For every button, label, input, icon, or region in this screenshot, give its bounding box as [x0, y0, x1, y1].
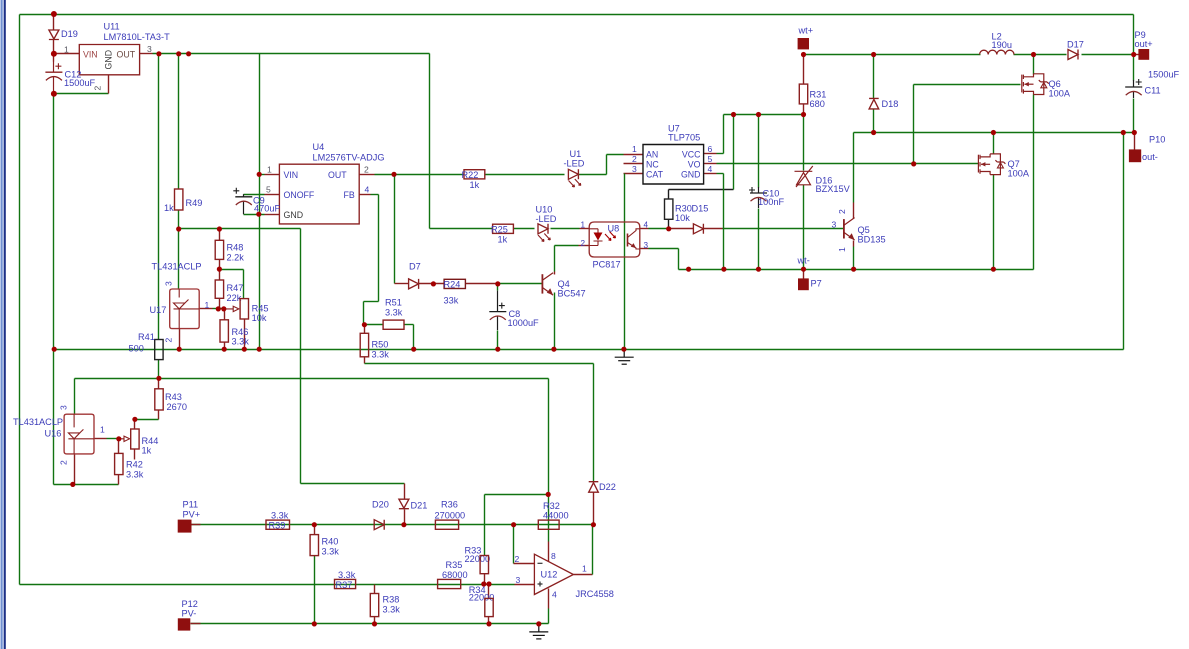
svg-text:22000: 22000: [469, 593, 495, 603]
svg-text:VIN: VIN: [83, 50, 98, 60]
svg-text:P12: P12: [182, 599, 198, 609]
wire r30 link v: [733, 115, 735, 190]
node u16 pin2: [70, 482, 75, 487]
wire pv- rail: [191, 623, 549, 625]
wire r43 bot lead: [158, 411, 160, 420]
wire r48net col down: [300, 229, 302, 484]
svg-text:1500uF: 1500uF: [64, 78, 96, 88]
svg-text:10k: 10k: [252, 313, 267, 323]
wire p9 stub: [1134, 54, 1139, 56]
wire u17 pin2: [179, 329, 181, 350]
resistor R41: [155, 340, 163, 360]
wire u8 pin1 stub: [580, 228, 590, 230]
node pv+ r32r: [591, 522, 596, 527]
svg-text:GND: GND: [681, 169, 701, 179]
wire d7 lead: [395, 283, 409, 285]
node outm d18: [871, 130, 876, 135]
svg-text:5: 5: [266, 185, 271, 195]
wire r42 top lead: [118, 439, 120, 454]
wire 10V rail: [153, 53, 430, 55]
mosfet Q7: [978, 154, 1005, 175]
wire vcc h: [717, 153, 724, 155]
wire d18 top lead: [873, 55, 875, 99]
opamp plus: [538, 582, 543, 587]
wire fb d: [363, 302, 365, 325]
wire d21 row: [301, 483, 405, 485]
wire r38 top lead: [374, 585, 376, 594]
pad P12: [178, 618, 191, 630]
svg-text:R24: R24: [444, 280, 461, 290]
resistor R22: [464, 170, 485, 179]
wire d21 top lead: [404, 484, 406, 499]
svg-text:ONOFF: ONOFF: [284, 190, 315, 200]
node r41 wireB: [156, 376, 161, 381]
node wt+ d18: [871, 52, 876, 57]
wire q7 drain: [993, 133, 995, 155]
svg-text:R37: R37: [336, 580, 353, 590]
wire out-/P10 line: [854, 132, 1135, 134]
svg-text:1k: 1k: [142, 446, 152, 456]
diode D22: [589, 482, 599, 493]
wire r49 col bottom: [178, 211, 180, 229]
svg-text:R31: R31: [810, 90, 827, 100]
node vccrail r31: [801, 112, 806, 117]
wire r47 lead top: [219, 270, 221, 281]
svg-text:3.3k: 3.3k: [322, 547, 340, 557]
diode D15: [693, 224, 703, 234]
svg-text:2670: 2670: [167, 402, 187, 412]
svg-text:D19: D19: [61, 29, 78, 39]
svg-text:BD135: BD135: [858, 235, 886, 245]
svg-text:1k: 1k: [470, 180, 480, 190]
svg-text:Q5: Q5: [858, 225, 870, 235]
svg-text:33k: 33k: [444, 296, 459, 306]
wire c11 col b: [1133, 99, 1135, 133]
svg-text:Q7: Q7: [1008, 159, 1020, 169]
svg-text:1: 1: [582, 564, 587, 574]
resistor R35: [438, 579, 461, 588]
ground opamp: [529, 624, 548, 639]
resistor R47: [215, 280, 223, 298]
wire pv+ line: [192, 524, 594, 526]
wire r48-r45 link h: [220, 269, 244, 271]
node wt- q7s: [991, 267, 996, 272]
svg-text:3: 3: [632, 164, 637, 174]
svg-text:out-: out-: [1142, 152, 1158, 162]
wire r30 bot lead: [668, 220, 670, 229]
svg-text:1: 1: [632, 144, 637, 154]
wire r46 lead top: [224, 309, 226, 320]
wire c8 bot lead: [497, 331, 499, 350]
svg-text:10k: 10k: [675, 213, 690, 223]
U8 light arrows: [605, 232, 616, 241]
svg-text:-LED: -LED: [564, 159, 585, 169]
wire B h: [75, 378, 549, 380]
wire r24-q4: [466, 283, 498, 285]
svg-text:CAT: CAT: [646, 169, 664, 179]
node out3 c: [186, 51, 191, 56]
svg-text:PC817: PC817: [593, 260, 621, 270]
svg-text:1k: 1k: [164, 203, 174, 213]
wire d21 bot lead: [404, 510, 406, 525]
svg-text:270000: 270000: [435, 511, 466, 521]
zener D16: [795, 166, 813, 187]
wire gnd rail: [55, 349, 1124, 351]
svg-text:R25: R25: [491, 225, 508, 235]
resistor R31: [799, 84, 807, 104]
svg-text:wt+: wt+: [798, 26, 814, 36]
node rail u17pin2: [177, 347, 182, 352]
wire u4 vin stub g: [260, 174, 265, 176]
node vccrail r30: [731, 112, 736, 117]
wire c11 col a: [1133, 15, 1135, 81]
node r30 u8pin4: [666, 226, 671, 231]
U8 photo transistor: [627, 234, 629, 247]
svg-text:3: 3: [832, 220, 837, 230]
svg-text:TL431ACLP: TL431ACLP: [152, 262, 202, 272]
wire gnd4 stub: [704, 173, 717, 175]
svg-text:D18: D18: [882, 99, 899, 109]
wire q6 source: [1033, 95, 1035, 270]
wire r44 bot stub: [134, 449, 136, 460]
node wt+ pad: [801, 52, 806, 57]
svg-text:5: 5: [708, 154, 713, 164]
node rail q4e: [551, 347, 556, 352]
svg-text:3.3k: 3.3k: [271, 511, 289, 521]
node pv+ r32l: [511, 522, 516, 527]
node wt- c10: [756, 267, 761, 272]
wire r31 bot lead: [803, 104, 805, 115]
wire vcc stub: [704, 153, 717, 155]
node u4 vin: [257, 172, 262, 177]
wire r40 bot lead: [314, 556, 316, 624]
svg-text:TL431ACLP: TL431ACLP: [13, 417, 63, 427]
wire d16 col: [803, 115, 805, 171]
wire opamp pin4 stub: [548, 589, 550, 609]
wire d17 to out+: [1082, 54, 1134, 56]
svg-text:2: 2: [632, 154, 637, 164]
wire r48 lead bot: [219, 260, 221, 270]
svg-text:R22: R22: [462, 170, 479, 180]
ic U11 box: [79, 45, 139, 75]
svg-text:44000: 44000: [543, 511, 569, 521]
svg-text:1: 1: [581, 221, 586, 230]
wire vin stub u11: [54, 53, 80, 55]
wire u1 to an: [607, 154, 624, 156]
wire pin2 h: [555, 245, 579, 247]
wire r34 bot lead: [488, 617, 490, 624]
svg-text:3: 3: [516, 575, 521, 585]
svg-text:wt-: wt-: [797, 256, 810, 266]
svg-text:2: 2: [837, 209, 847, 214]
ground main: [615, 349, 634, 364]
inductor L2: [980, 50, 1014, 54]
wire u8 pin2 stub: [579, 245, 590, 247]
node pv- r34: [486, 621, 491, 626]
wire r48 net h: [179, 228, 301, 230]
svg-text:GND: GND: [284, 210, 304, 220]
wire r30 link h: [669, 189, 734, 191]
svg-text:68000: 68000: [442, 570, 468, 580]
wire opamp v+ lead: [548, 495, 550, 542]
wire pin4 h: [649, 228, 669, 230]
svg-text:R38: R38: [383, 595, 400, 605]
resistor R30: [665, 199, 673, 219]
svg-text:VO: VO: [688, 159, 701, 169]
wire wt+ line: [804, 54, 981, 56]
wire u8 pin3 stub: [640, 248, 649, 250]
wire q5 collector pin: [853, 203, 855, 219]
frame left bar: [0, 0, 4, 649]
svg-text:-LED: -LED: [536, 214, 557, 224]
resistor R24: [444, 279, 465, 288]
node rail r46: [222, 347, 227, 352]
transistor Q5: [844, 218, 855, 240]
svg-text:2: 2: [515, 554, 520, 564]
svg-text:1k: 1k: [498, 235, 508, 245]
led U1: [568, 169, 578, 179]
wire q5 emitter pin: [853, 241, 855, 247]
resistor R34: [485, 598, 493, 616]
node vo branch: [911, 161, 916, 166]
svg-text:U4: U4: [313, 142, 325, 152]
svg-text:D22: D22: [599, 482, 616, 492]
node out3 a: [156, 51, 161, 56]
wire q4 emitter lead: [554, 293, 556, 350]
node wt- q5e: [851, 267, 856, 272]
wire out net h: [375, 174, 465, 176]
ic U8 box: [589, 222, 640, 257]
svg-text:R36: R36: [441, 500, 458, 510]
wire r45 bot lead: [244, 319, 246, 350]
node d7 r24: [431, 281, 436, 286]
wire pin3 stub: [515, 584, 535, 586]
svg-text:TLP705: TLP705: [668, 133, 700, 143]
wire r31 top lead: [803, 55, 805, 85]
led U10: [538, 224, 548, 234]
capacitor C11: [1125, 79, 1142, 98]
svg-text:3.3k: 3.3k: [338, 570, 356, 580]
wire fb a: [371, 194, 379, 196]
svg-text:1: 1: [267, 165, 272, 175]
svg-text:U8: U8: [608, 224, 620, 234]
wire vcc v: [723, 115, 725, 154]
resistor R46: [220, 320, 228, 342]
node r48 r47: [217, 267, 222, 272]
pad P10: [1129, 149, 1141, 162]
node pv- gndsym: [536, 621, 541, 626]
node fb r50: [362, 322, 367, 327]
wire c10 top lead: [758, 115, 760, 188]
node c12 bottom: [51, 91, 57, 97]
wire u16 pin3: [74, 379, 76, 415]
svg-text:1: 1: [837, 247, 847, 252]
svg-text:R42: R42: [126, 460, 143, 470]
node q4 base c8: [495, 281, 500, 286]
wire r33 link h: [485, 494, 549, 496]
wire u16 pin2: [74, 454, 76, 485]
ic U17 box: [170, 289, 200, 329]
resistor R42: [115, 453, 123, 474]
capacitor C12: [45, 61, 62, 93]
wire top rail: [20, 14, 1134, 16]
svg-text:D21: D21: [411, 501, 428, 511]
node r49 r48: [176, 226, 181, 231]
diode D21: [399, 499, 409, 509]
wire nc stub: [624, 163, 643, 165]
wire out net h2: [485, 174, 565, 176]
wire r49 col top: [178, 54, 180, 189]
svg-text:2.2k: 2.2k: [227, 253, 245, 263]
wire q7 source: [993, 175, 995, 270]
wire c8 top lead: [497, 284, 499, 291]
wire u4 out stub: [360, 174, 375, 176]
wire u4 vin stub: [265, 174, 280, 176]
wire vo line: [717, 163, 979, 165]
wire q4 base h: [498, 283, 543, 285]
svg-text:P11: P11: [183, 500, 199, 510]
svg-text:D15: D15: [692, 204, 709, 214]
resistor R48: [215, 240, 223, 259]
wire q6 drain: [1033, 55, 1035, 75]
wire r51 left: [365, 324, 384, 326]
wire r43-r44 h: [135, 419, 159, 421]
wire r30 top lead: [668, 190, 670, 199]
node pv- r38: [372, 621, 377, 626]
svg-text:PV+: PV+: [183, 510, 201, 520]
svg-text:680: 680: [810, 99, 825, 109]
wire pin2 v: [554, 246, 556, 272]
led U10 arrows: [538, 234, 550, 242]
svg-text:3: 3: [164, 281, 174, 286]
svg-text:U10: U10: [536, 205, 553, 215]
resistor R36: [435, 520, 458, 529]
wire pin3 v: [678, 249, 680, 270]
wire u4 onoff stub: [265, 194, 280, 196]
resistor R32: [538, 520, 559, 529]
wire u11 gnd pin2 h: [54, 93, 109, 95]
diode D19: [49, 30, 59, 40]
diode D7: [409, 279, 419, 289]
svg-text:R44: R44: [142, 436, 159, 446]
wire u4 vin col: [259, 54, 261, 350]
svg-text:FB: FB: [344, 190, 355, 200]
wire q5 collector v: [853, 133, 855, 203]
diode D17: [1068, 50, 1078, 60]
pad P9: [1138, 49, 1149, 60]
svg-text:R32: R32: [543, 501, 560, 511]
wire gnd4 h: [717, 173, 724, 175]
svg-text:4: 4: [708, 164, 713, 174]
svg-text:U17: U17: [150, 305, 167, 315]
resistor R43: [155, 389, 163, 410]
wire opamp pin8 stub: [548, 542, 550, 562]
wire u4 gnd stub: [265, 214, 280, 216]
svg-text:GND: GND: [104, 50, 114, 70]
pad wt+: [798, 38, 809, 49]
wire r46 lead bot: [224, 343, 226, 350]
svg-text:1500uF: 1500uF: [1148, 70, 1180, 80]
wire q6 gate v: [913, 85, 915, 164]
wire p7 stub: [803, 270, 805, 279]
wire wt- rail: [679, 269, 1034, 271]
svg-text:R35: R35: [446, 560, 463, 570]
svg-text:OUT: OUT: [117, 50, 136, 60]
node out+ p9: [1131, 52, 1136, 57]
wire r43 top lead: [158, 379, 160, 389]
wire vcc mini rail: [724, 114, 804, 116]
wire d15 lead b: [704, 228, 723, 230]
svg-text:2: 2: [581, 239, 586, 248]
wire u17 pin1 stub: [200, 308, 213, 310]
node out3 b: [176, 51, 181, 56]
wire an stub: [624, 154, 643, 156]
svg-text:1000uF: 1000uF: [508, 318, 540, 328]
wire left long vertical: [19, 15, 21, 585]
wire pin3 h: [649, 248, 679, 250]
resistor R39: [266, 520, 290, 529]
svg-text:3: 3: [147, 44, 152, 54]
wire u16 pin1 h: [107, 438, 119, 440]
svg-text:3: 3: [59, 405, 69, 410]
wire bottom opamp pin3 line: [20, 584, 515, 586]
node r43 r44: [132, 417, 137, 422]
wire r41 col bottom: [158, 360, 160, 379]
node pv+ d21: [401, 522, 406, 527]
wire led-u8: [551, 228, 580, 230]
wire c9 gnd h: [244, 214, 265, 216]
node u17 pin1 b: [221, 306, 226, 311]
wire A v: [593, 364, 595, 482]
node r48 top: [217, 226, 222, 231]
svg-text:C11: C11: [1145, 86, 1161, 96]
pad P11: [178, 520, 192, 533]
opamp minus: [538, 562, 543, 564]
node rail gnd sym: [621, 347, 626, 352]
node l2 q6: [1031, 52, 1036, 57]
svg-text:R46: R46: [232, 327, 249, 337]
svg-text:R39: R39: [269, 521, 286, 531]
svg-text:2: 2: [164, 338, 174, 343]
svg-text:VCC: VCC: [682, 149, 701, 159]
wire d7-r24: [419, 283, 445, 285]
svg-text:2: 2: [364, 165, 369, 175]
svg-text:4: 4: [365, 185, 370, 195]
node c9 gnd: [256, 212, 261, 217]
wire d16 bot: [803, 185, 805, 270]
wire r51 right: [405, 324, 414, 326]
wire d18 bot lead: [873, 110, 875, 133]
wire r48 lead top: [219, 229, 221, 241]
wire cat col down: [624, 174, 626, 350]
wire wt+ line b: [1014, 54, 1067, 56]
wire c12 node long down: [53, 94, 55, 485]
svg-text:D7: D7: [409, 262, 421, 272]
svg-text:R48: R48: [227, 243, 244, 253]
wire r51 down: [413, 325, 415, 350]
diode D20: [374, 520, 384, 530]
wire r33 bot lead: [484, 574, 486, 585]
svg-text:R50: R50: [372, 340, 389, 350]
led U1 arrows: [569, 179, 581, 187]
svg-text:Q4: Q4: [558, 279, 570, 289]
node pv- r40: [312, 621, 317, 626]
resistor R45: [240, 299, 248, 319]
wire r25 col: [429, 54, 431, 229]
wire r41 col top: [158, 54, 160, 340]
svg-text:4: 4: [552, 590, 557, 600]
capacitor C9: [233, 188, 252, 214]
